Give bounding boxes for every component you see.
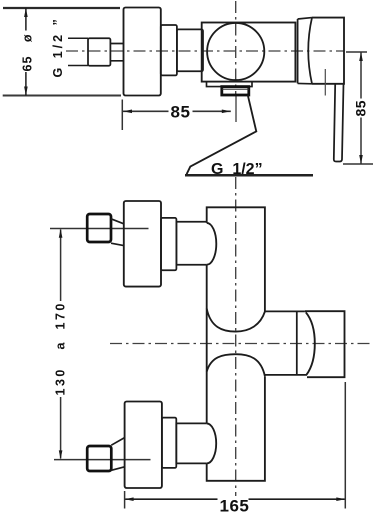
spout wand outline (top view) bbox=[187, 95, 257, 174]
bracket lines at fitting (top view) bbox=[68, 38, 88, 65]
ext 165 left bbox=[124, 491, 126, 509]
lower escutcheon (front) bbox=[125, 402, 162, 489]
svg-text:130a170: 130a170 bbox=[54, 301, 68, 395]
escutcheon plate (top view) bbox=[124, 8, 161, 96]
lower eccentric cone bbox=[111, 438, 124, 471]
dim 85 (top view horizontal) bbox=[123, 110, 231, 114]
upper inlet dome bbox=[207, 223, 217, 265]
lower step 2 (front) bbox=[176, 423, 206, 463]
handle neck edges (top view) bbox=[298, 18, 312, 84]
extension line bottom (65 dia, lower) bbox=[3, 95, 121, 97]
svg-text:G 1/2”: G 1/2” bbox=[211, 161, 263, 178]
handle neck (front) bbox=[265, 311, 307, 375]
svg-text:85: 85 bbox=[352, 100, 368, 117]
dim 85 (top view horizontal) extension bbox=[121, 100, 123, 131]
dim 165 bbox=[125, 497, 346, 501]
upper step 1 (front) bbox=[161, 218, 176, 270]
wall baseline (top view) bbox=[185, 174, 313, 177]
outlet flange (top view) bbox=[207, 82, 253, 87]
pipe to escutcheon (top view) bbox=[110, 44, 123, 61]
upper union nut (front, bold) bbox=[87, 214, 111, 242]
outlet box bold (top view) bbox=[222, 87, 249, 95]
lower union nut (front, bold) bbox=[87, 446, 111, 471]
upper step 2 (front) bbox=[176, 222, 206, 265]
svg-text:165: 165 bbox=[220, 496, 250, 515]
dimension line 65 dia bbox=[24, 8, 28, 96]
body outline (front view) bbox=[207, 207, 265, 481]
centerline horizontal (top view axis) bbox=[66, 50, 345, 52]
union nut (top view) bbox=[88, 38, 110, 65]
dim 85 right extensions bbox=[343, 52, 373, 164]
lower waist dome bbox=[207, 354, 265, 376]
outlet box inner line bbox=[222, 88, 249, 90]
lever pivot tick bbox=[324, 69, 326, 96]
cartridge circle (top view) bbox=[207, 23, 264, 80]
body step 1 (top view) bbox=[161, 25, 177, 75]
lever bar (top view) bbox=[334, 84, 344, 162]
ext line lower inlet axis bbox=[54, 459, 151, 461]
svg-text:85: 85 bbox=[171, 103, 191, 122]
lower step 1 (front) bbox=[162, 418, 176, 468]
ext 165 right bbox=[344, 382, 346, 509]
upper eccentric cone bbox=[111, 219, 124, 246]
body step 2 (top view) bbox=[177, 29, 203, 71]
svg-text:G 1/2 ”: G 1/2 ” bbox=[51, 16, 65, 77]
upper escutcheon (front) bbox=[124, 201, 161, 287]
lower inlet dome bbox=[207, 423, 217, 463]
handle knob (front) bbox=[305, 311, 345, 377]
centerline vertical (main axis) bbox=[235, 1, 237, 95]
handle barrel arc (front) bbox=[306, 312, 315, 374]
handle neck plate (top view) bbox=[297, 19, 299, 83]
dim 130 a 170 (vertical) bbox=[59, 229, 63, 460]
centerline horizontal (front view axis) bbox=[110, 343, 372, 345]
dim 85 right (vertical) bbox=[359, 52, 363, 164]
mixer body (top view) bbox=[202, 23, 296, 82]
handle waist arc (top view) bbox=[308, 18, 312, 84]
upper waist dome bbox=[207, 309, 265, 332]
ext line upper inlet axis bbox=[50, 228, 149, 230]
handle knob (top view) bbox=[312, 18, 344, 84]
extension line top (65 dia, upper) bbox=[3, 7, 120, 9]
svg-text:65 ø: 65 ø bbox=[21, 34, 35, 72]
